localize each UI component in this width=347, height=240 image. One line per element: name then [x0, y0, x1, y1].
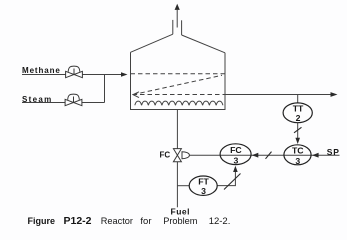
svg-text:3: 3	[295, 156, 300, 166]
svg-text:FC: FC	[160, 151, 171, 160]
svg-text:P12-2: P12-2	[64, 215, 92, 227]
svg-text:2: 2	[296, 113, 301, 123]
svg-text:12-2.: 12-2.	[209, 216, 231, 227]
svg-text:SP: SP	[327, 147, 340, 157]
svg-text:FC: FC	[230, 145, 242, 155]
svg-text:TT: TT	[293, 104, 304, 114]
svg-text:FT: FT	[198, 176, 209, 186]
svg-text:3: 3	[201, 186, 206, 196]
svg-text:TC: TC	[292, 145, 304, 155]
svg-text:Figure: Figure	[28, 216, 56, 226]
svg-text:for: for	[140, 216, 151, 227]
svg-text:Steam: Steam	[22, 95, 53, 104]
svg-text:3: 3	[233, 155, 238, 165]
svg-text:Problem: Problem	[163, 216, 198, 226]
svg-text:Fuel: Fuel	[171, 207, 190, 217]
svg-text:Methane: Methane	[22, 66, 61, 75]
svg-text:Reactor: Reactor	[101, 216, 133, 226]
